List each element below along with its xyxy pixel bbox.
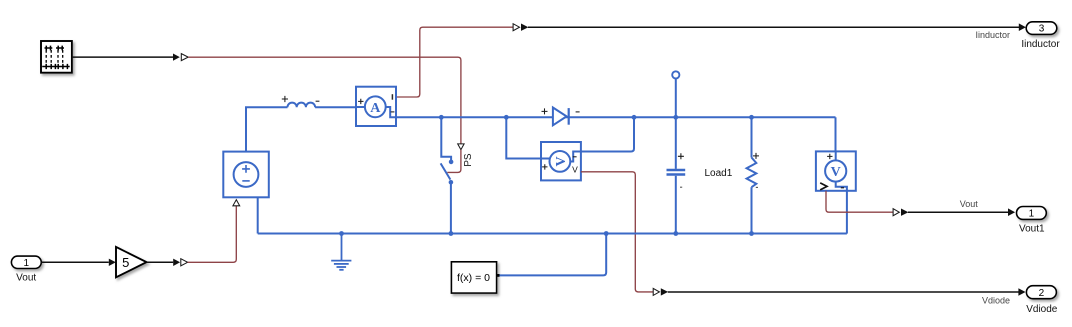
simulink-PS converter port (open triangle): [181, 259, 188, 266]
wire diode anode to voltmeter1 +: [506, 117, 541, 158]
switch top lead: [441, 117, 451, 161]
PS-simulink converter port Vout (open triangle): [893, 209, 899, 216]
arrowhead at outport 2: [1018, 288, 1025, 296]
load bottom junction dot: [749, 231, 754, 236]
svg-text:Load1: Load1: [705, 168, 733, 179]
PS wire gate signal to switch: [188, 57, 461, 143]
switch bottom contact: [449, 180, 454, 185]
wire solver to bottom rail: [500, 234, 607, 276]
node circle top of capacitor: [672, 71, 679, 78]
gain block 5: [116, 247, 147, 278]
diode symbol: [553, 108, 567, 126]
svg-text:PS: PS: [463, 153, 474, 167]
outport 3 Iinductor: [1026, 22, 1057, 35]
bottom rail: [258, 233, 847, 235]
svg-text:Vout: Vout: [960, 199, 979, 209]
PS wire voltmeter1 V output to Vdiode: [581, 172, 653, 292]
svg-text:Vdiode: Vdiode: [982, 295, 1010, 305]
switch arm: [441, 163, 451, 179]
diode cathode junction dot: [632, 115, 637, 120]
capacitor junction dot top rail: [673, 115, 678, 120]
svg-text:1: 1: [24, 258, 30, 269]
wire inductor to ammeter: [315, 106, 356, 108]
svg-text:V: V: [554, 156, 569, 166]
load resistor bottom lead: [751, 187, 753, 233]
PS wire triangle to switch arm: [447, 150, 461, 173]
PS-simulink converter port Iinductor (open triangle): [513, 24, 519, 31]
outport 2 Vdiode: [1026, 286, 1056, 299]
svg-text:V: V: [572, 164, 578, 174]
arrowhead into gain: [109, 259, 116, 266]
arrowhead gain output: [173, 259, 180, 266]
inductor + label: [282, 96, 288, 102]
controlled voltage source block: [223, 152, 268, 198]
diode - label: [576, 111, 580, 113]
simulink-PS converter port (open triangle): [181, 54, 188, 61]
wire Vout to outport: [908, 211, 1009, 213]
svg-text:A: A: [370, 101, 381, 116]
capacitor + label: [678, 153, 684, 159]
svg-text:Iinductor: Iinductor: [975, 30, 1010, 40]
ammeter block: [356, 87, 396, 126]
svg-text:Vout1: Vout1: [1019, 223, 1045, 234]
arrowhead Iinductor black wire start: [521, 24, 528, 31]
wire rail down to voltmeter Vout +: [835, 117, 837, 151]
pulse generator PWM block: [41, 41, 72, 73]
svg-text:V: V: [831, 165, 841, 180]
load resistor top lead: [751, 117, 753, 157]
ground symbol: [331, 234, 351, 270]
capacitor - mark: [680, 186, 682, 188]
svg-text:2: 2: [1039, 288, 1045, 299]
wire Vdiode to outport: [668, 291, 1019, 293]
PS-simulink converter port Vdiode (open triangle): [653, 288, 659, 295]
pulse generator icon: [42, 46, 69, 70]
arrowhead simulink side: [173, 54, 180, 61]
svg-text:Vout: Vout: [16, 273, 36, 284]
diode cathode bar: [568, 108, 570, 125]
wire Iinductor to outport: [528, 26, 1020, 28]
wire gain output: [147, 261, 174, 263]
wire pulse generator output: [72, 56, 173, 58]
source control input triangle: [233, 200, 240, 206]
load + label: [753, 153, 759, 159]
arrowhead at outport 1: [1008, 208, 1015, 216]
arrowhead at outport 3: [1019, 23, 1026, 31]
capacitor bottom junction dot: [673, 231, 678, 236]
solver junction dot: [604, 231, 609, 236]
switch bottom lead: [450, 182, 452, 233]
outport 1 Vout1: [1017, 207, 1047, 220]
wire voltmeter2 - down to bottom rail: [846, 191, 848, 234]
switch top contact: [449, 160, 454, 165]
capacitor plates: [667, 170, 686, 175]
load junction dot top rail: [749, 115, 754, 120]
arrowhead Vout black wire start: [901, 209, 908, 216]
svg-text:f(x) = 0: f(x) = 0: [457, 272, 490, 284]
switch bottom junction dot: [449, 231, 454, 236]
solver configuration block f(x)=0: [451, 262, 499, 293]
wire voltmeter1 - to diode cathode node: [581, 117, 634, 151]
wire source + to inductor: [246, 107, 288, 151]
wire capacitor to bottom rail: [675, 176, 677, 234]
wire source - to bottom rail: [257, 197, 259, 233]
svg-text:5: 5: [122, 255, 129, 270]
diode anode junction dot: [504, 115, 509, 120]
wire inport to gain: [41, 261, 109, 263]
load - mark: [756, 186, 758, 188]
inport 1 Vout: [11, 256, 41, 269]
svg-text:1: 1: [1029, 209, 1035, 220]
PS wire gain to source control: [188, 206, 237, 262]
diode + label: [542, 108, 548, 114]
svg-text:3: 3: [1039, 24, 1045, 35]
inductor - label: [316, 100, 320, 102]
switch PS input triangle: [458, 144, 464, 150]
svg-text:Vdiode: Vdiode: [1026, 304, 1058, 315]
wire node to capacitor: [675, 79, 677, 169]
ground junction dot: [339, 231, 344, 236]
PS wire ammeter I output to Iinductor converter: [396, 27, 513, 97]
voltmeter1 (diode) block: [541, 142, 581, 180]
svg-text:Iinductor: Iinductor: [1021, 39, 1060, 50]
voltmeter2 Vout block: [816, 151, 856, 190]
PS wire voltmeter2 output to Vout1: [826, 191, 893, 212]
wire ammeter - to diode node (main top rail): [396, 116, 836, 118]
arrowhead Vdiode black wire start: [661, 288, 668, 295]
inductor: [288, 103, 316, 108]
switch tap junction dot: [439, 115, 444, 120]
load resistor zigzag: [747, 158, 757, 188]
